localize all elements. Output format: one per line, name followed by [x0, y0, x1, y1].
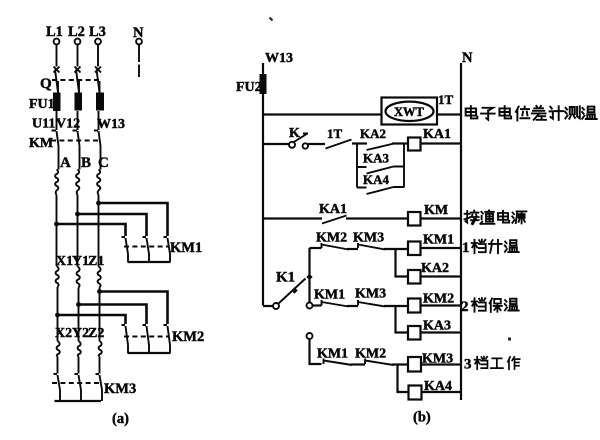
instrument XWT ellipse	[386, 102, 434, 121]
contact KM2 rung6	[365, 359, 394, 366]
selector K1 common circle	[273, 303, 279, 309]
wire KM1 bottom bus	[128, 261, 171, 263]
svg-text:Z2: Z2	[88, 326, 104, 341]
speck marks	[270, 18, 273, 21]
coil KA1	[408, 138, 421, 151]
svg-text:3: 3	[464, 357, 472, 373]
wire rung4 from K1	[310, 247, 322, 249]
wire rung3 left	[263, 217, 322, 219]
heater section2 coil C	[98, 267, 101, 288]
svg-text:U11: U11	[32, 117, 55, 132]
svg-text:KA3: KA3	[363, 151, 390, 166]
svg-text:2: 2	[461, 299, 469, 315]
node C tap 1	[96, 201, 101, 206]
svg-text:KM: KM	[29, 136, 53, 151]
svg-text:KM3: KM3	[355, 287, 386, 302]
heater section1 coil C	[97, 170, 100, 196]
svg-text:KM1: KM1	[314, 288, 345, 303]
fuse FU1 pole 2	[75, 93, 83, 111]
heater section3 coil A	[57, 341, 60, 357]
contactor KM3 dashed interlock	[52, 382, 100, 384]
svg-text:KA1: KA1	[319, 202, 347, 217]
svg-text:KA2: KA2	[421, 261, 449, 276]
contactor KM pole 3	[94, 131, 101, 147]
node A tap 2	[55, 313, 60, 318]
node B tap 2	[76, 302, 81, 307]
coil KM3	[408, 357, 421, 372]
wire KA3 coil to N	[421, 331, 462, 333]
switch Q pole 3 blade and x	[95, 67, 101, 93]
coil KM	[408, 212, 421, 226]
contactor KM dashed interlock	[51, 140, 99, 142]
svg-text:K1: K1	[276, 270, 295, 286]
svg-text:B: B	[81, 155, 91, 171]
wire B tap to KM1 pole2	[78, 214, 147, 236]
svg-text:C: C	[98, 155, 109, 171]
contact KM3 rung5	[358, 300, 385, 307]
contactor KM2 pole 1	[122, 325, 129, 353]
wire rung4 mid	[347, 248, 358, 250]
heater section1 coil B	[76, 170, 79, 196]
wire KA3 row	[357, 166, 404, 169]
wire phase B vertical segments	[78, 45, 82, 401]
wire B tap to KM2 pole2	[79, 305, 147, 325]
wire 1T to KA2	[352, 142, 367, 144]
selector K1 position3 circle	[307, 333, 313, 339]
coil KA3	[408, 326, 421, 340]
contactor KM3 pole 3	[96, 374, 103, 390]
wire branch vertical right	[403, 144, 405, 188]
wire rung5 right	[384, 305, 408, 307]
svg-text:(a): (a)	[112, 411, 129, 427]
contact KA1	[322, 216, 347, 224]
heater section3 coil C	[99, 341, 102, 357]
fuse FU2	[260, 74, 267, 94]
contactor KM1 pole 1	[122, 237, 129, 262]
contactor KM pole 2	[73, 131, 80, 147]
wire rung3 right	[346, 217, 408, 219]
wire KM1 coil to N	[421, 247, 462, 249]
terminal L2	[68, 24, 85, 44]
wire rung5 mid	[347, 305, 358, 307]
wire C tap to KM1 pole3	[99, 203, 168, 236]
switch K contact circle	[303, 143, 308, 148]
contactor KM3 pole 2	[75, 374, 82, 390]
contactor KM1 pole 2	[143, 237, 150, 262]
coil KM1	[408, 242, 421, 256]
svg-text:KM1: KM1	[317, 347, 348, 362]
terminal L1	[46, 24, 63, 44]
wire bottom star bus	[55, 400, 102, 402]
svg-text:Y1: Y1	[72, 254, 89, 269]
contactor KM2 dashed interlock	[124, 336, 168, 338]
wire KA2 to KA1 coil	[392, 142, 408, 144]
contact KA2	[367, 144, 395, 151]
annotation 电子电位差计测温	[466, 106, 478, 118]
svg-text:N: N	[133, 25, 144, 41]
svg-text:L1: L1	[46, 24, 63, 40]
wire KA4 row	[357, 186, 404, 189]
wire branch to KA4 coil	[398, 365, 409, 393]
contact KM3 rung4	[358, 243, 385, 250]
wire KA2 coil to N	[421, 275, 462, 277]
wire KA1 coil to N	[421, 142, 462, 144]
svg-text:K: K	[289, 126, 300, 141]
svg-text:A: A	[60, 155, 71, 171]
contactor KM pole 1	[52, 131, 59, 147]
fuse FU1 pole 1	[53, 93, 61, 112]
svg-text:KM3: KM3	[353, 231, 384, 246]
wire rung1 left	[263, 113, 382, 115]
contactor KM1 dashed interlock	[124, 246, 168, 248]
switch Q pole 1 blade and x	[54, 67, 60, 93]
svg-text:KM: KM	[424, 203, 448, 218]
heater section2 coil B	[77, 267, 80, 288]
svg-text:1: 1	[462, 240, 470, 256]
svg-text:Q: Q	[40, 76, 52, 92]
wire phase C vertical segments	[98, 45, 102, 401]
svg-text:KM2: KM2	[355, 347, 386, 362]
terminal N	[133, 25, 144, 44]
svg-text:(b): (b)	[413, 410, 431, 426]
wire K1 position3 to rung6	[310, 339, 322, 364]
selector K1 vertical	[308, 248, 310, 303]
terminal L3	[89, 24, 106, 44]
wire rung4 right	[384, 248, 408, 250]
rail N	[460, 63, 462, 400]
svg-text:L3: L3	[89, 24, 106, 40]
svg-text:N: N	[462, 50, 473, 66]
contact KM2 rung4	[322, 243, 349, 250]
wire KM2 coil to N	[421, 304, 462, 306]
heater section3 coil B	[78, 341, 81, 357]
coil KA4	[409, 386, 422, 400]
svg-text:KA3: KA3	[423, 319, 451, 334]
wire phase A vertical segments	[57, 45, 61, 401]
selector K1 diamond	[306, 274, 312, 280]
wire W13 to K1 common	[263, 305, 273, 307]
contact KA3	[367, 167, 394, 174]
svg-text:Y2: Y2	[72, 326, 89, 341]
svg-text:KM3: KM3	[104, 381, 136, 397]
svg-text:FU2: FU2	[236, 80, 262, 95]
svg-text:KM2: KM2	[316, 231, 347, 246]
svg-text:KM2: KM2	[423, 292, 454, 307]
wire KA4 coil to N	[422, 391, 462, 393]
wire branch to KA3 coil	[396, 306, 409, 333]
wire KM3 coil to N	[421, 363, 461, 365]
heater section1 coil A	[55, 170, 58, 196]
contact KM1 rung5	[322, 300, 349, 307]
node B tap 1	[75, 212, 80, 217]
wire rung6 right	[392, 363, 408, 365]
wire N stub	[138, 45, 140, 77]
svg-text:KA2: KA2	[360, 126, 386, 141]
node A tap 1	[54, 222, 59, 227]
node C tap 2	[97, 289, 102, 294]
coil KA2	[408, 270, 421, 284]
switch Q interlock dashed line	[52, 79, 101, 81]
wire rung6 mid	[351, 363, 366, 365]
contactor KM2 pole 2	[143, 325, 150, 353]
svg-text:KA1: KA1	[423, 127, 451, 142]
svg-text:1T: 1T	[327, 126, 343, 141]
coil KM2	[408, 299, 421, 313]
contact KA4	[367, 187, 394, 194]
wire branch to KA2 coil	[396, 249, 409, 277]
wire K to 1T	[308, 143, 325, 145]
rail W13	[262, 63, 264, 306]
switch Q pole 2 blade and x	[75, 67, 81, 93]
heater section2 coil A	[56, 266, 59, 287]
svg-text:V12: V12	[56, 117, 80, 132]
contactor KM2 pole 3	[164, 325, 171, 353]
selector K1 blade with arrow	[279, 279, 306, 304]
contactor KM3 pole 1	[54, 374, 61, 390]
svg-text:KM1: KM1	[170, 240, 202, 256]
contact KM1 rung6	[324, 359, 353, 366]
svg-text:W13: W13	[97, 117, 125, 132]
svg-text:W13: W13	[265, 51, 293, 66]
wire A tap to KM2 pole1	[58, 315, 126, 324]
selector K1 position2 circle	[307, 303, 313, 309]
svg-text:Z1: Z1	[88, 254, 104, 269]
wire rung2 left	[263, 143, 289, 145]
svg-text:L2: L2	[68, 24, 85, 40]
wire KM coil to N	[421, 217, 462, 219]
contactor KM1 pole 3	[164, 237, 171, 262]
svg-text:KM2: KM2	[172, 329, 204, 345]
fuse FU1 pole 3	[96, 93, 104, 111]
contact 1T	[326, 140, 352, 149]
svg-text:XWT: XWT	[394, 105, 425, 119]
wire branch vertical left	[356, 144, 358, 188]
instrument XWT box	[382, 98, 438, 125]
annotation 接通电源	[464, 211, 478, 225]
svg-text:KA4: KA4	[363, 172, 390, 187]
wire rung5 from K1	[313, 304, 322, 306]
switch K hinge circle	[289, 142, 295, 148]
wire A tap to KM1 pole1	[57, 224, 126, 236]
wire KM2 bottom bus	[128, 352, 171, 354]
wire C tap to KM2 pole3	[100, 292, 168, 325]
switch K blade	[293, 134, 308, 143]
svg-text:1T: 1T	[438, 92, 454, 107]
svg-text:FU1: FU1	[29, 97, 55, 112]
svg-text:X2: X2	[55, 326, 72, 341]
svg-text:KM1: KM1	[423, 233, 454, 248]
wire rung1 right	[437, 113, 461, 115]
